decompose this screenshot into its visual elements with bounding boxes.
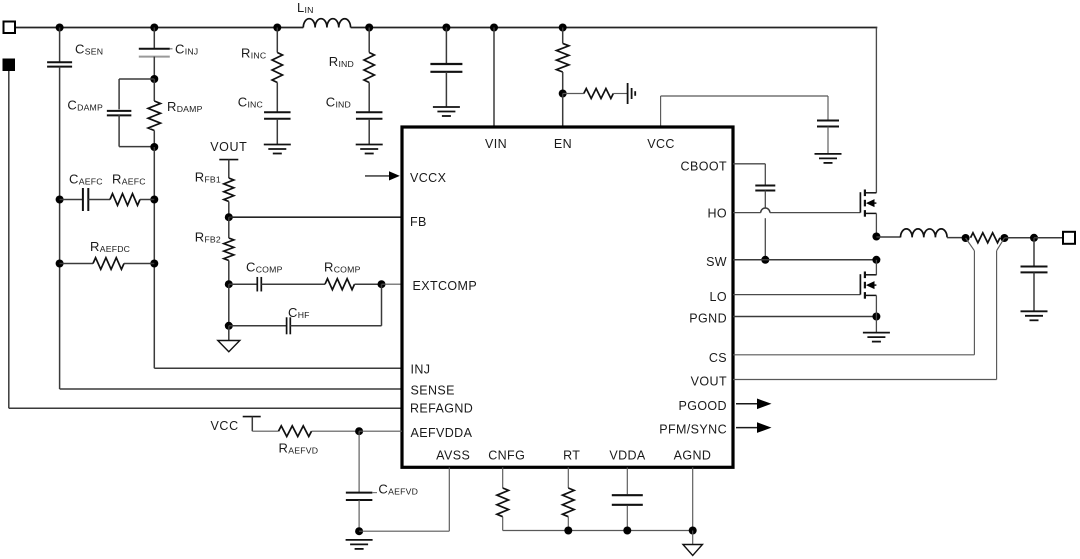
svg-text:AGND: AGND bbox=[674, 449, 712, 463]
svg-text:AVSS: AVSS bbox=[436, 449, 470, 463]
svg-text:CS: CS bbox=[709, 351, 727, 365]
svg-text:PGND: PGND bbox=[689, 312, 727, 326]
svg-text:EN: EN bbox=[554, 137, 572, 151]
svg-text:INJ: INJ bbox=[411, 363, 431, 377]
svg-text:VOUT: VOUT bbox=[691, 375, 727, 389]
svg-text:CNFG: CNFG bbox=[488, 449, 525, 463]
svg-text:AEFVDDA: AEFVDDA bbox=[411, 426, 473, 440]
svg-text:REFAGND: REFAGND bbox=[410, 402, 473, 416]
svg-text:PFM/SYNC: PFM/SYNC bbox=[659, 423, 727, 437]
svg-text:VDDA: VDDA bbox=[609, 449, 646, 463]
svg-text:VCC: VCC bbox=[647, 137, 675, 151]
svg-text:VCC: VCC bbox=[211, 419, 239, 433]
svg-text:PGOOD: PGOOD bbox=[678, 399, 727, 413]
svg-text:CBOOT: CBOOT bbox=[681, 160, 727, 174]
svg-text:EXTCOMP: EXTCOMP bbox=[413, 279, 478, 293]
svg-text:LO: LO bbox=[710, 290, 727, 304]
svg-text:RT: RT bbox=[563, 449, 580, 463]
svg-text:VCCX: VCCX bbox=[410, 171, 447, 185]
svg-text:VOUT: VOUT bbox=[210, 140, 247, 154]
svg-text:SW: SW bbox=[706, 255, 727, 269]
svg-text:VIN: VIN bbox=[485, 137, 507, 151]
svg-text:FB: FB bbox=[410, 215, 427, 229]
svg-text:HO: HO bbox=[707, 207, 727, 221]
svg-text:SENSE: SENSE bbox=[411, 384, 455, 398]
